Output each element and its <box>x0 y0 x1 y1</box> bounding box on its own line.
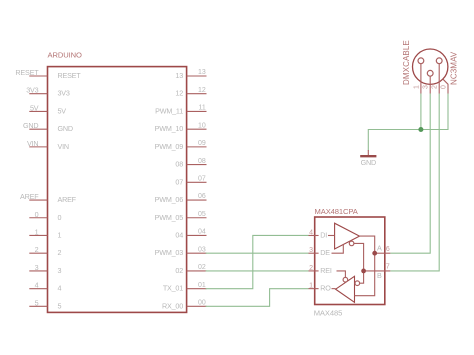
svg-text:PWM_05: PWM_05 <box>155 213 184 222</box>
svg-text:3: 3 <box>423 85 430 89</box>
svg-text:3: 3 <box>35 263 39 272</box>
svg-text:0: 0 <box>58 213 62 222</box>
svg-text:A: A <box>377 243 382 252</box>
svg-text:RESET: RESET <box>58 71 82 80</box>
svg-text:NC3MAV: NC3MAV <box>450 51 459 85</box>
svg-text:02: 02 <box>175 266 183 275</box>
svg-text:PWM_11: PWM_11 <box>155 106 183 115</box>
svg-text:GND: GND <box>23 121 38 130</box>
svg-text:12: 12 <box>198 87 206 94</box>
svg-text:4: 4 <box>35 281 39 290</box>
svg-text:GND: GND <box>58 124 73 133</box>
svg-text:DE: DE <box>320 248 330 257</box>
svg-text:AREF: AREF <box>58 195 77 204</box>
svg-text:07: 07 <box>175 177 183 186</box>
svg-text:05: 05 <box>198 211 206 218</box>
svg-text:07: 07 <box>198 176 206 183</box>
svg-text:5: 5 <box>58 301 62 310</box>
svg-text:1: 1 <box>58 230 62 239</box>
svg-text:08: 08 <box>175 160 183 169</box>
svg-text:3: 3 <box>309 247 313 254</box>
svg-text:13: 13 <box>175 71 183 80</box>
svg-text:11: 11 <box>199 105 206 112</box>
svg-text:03: 03 <box>198 246 206 253</box>
svg-text:10: 10 <box>198 122 206 129</box>
svg-text:PWM_03: PWM_03 <box>155 248 184 257</box>
svg-text:RESET: RESET <box>15 68 39 77</box>
svg-text:4: 4 <box>309 229 313 236</box>
svg-text:13: 13 <box>198 69 206 76</box>
svg-text:1: 1 <box>309 283 313 290</box>
svg-text:MAX485: MAX485 <box>314 309 343 318</box>
svg-text:0: 0 <box>440 85 447 89</box>
svg-text:7: 7 <box>386 264 390 271</box>
svg-text:0: 0 <box>35 210 39 219</box>
svg-text:3V3: 3V3 <box>26 86 38 95</box>
svg-text:06: 06 <box>198 193 206 200</box>
svg-text:MAX481CPA: MAX481CPA <box>315 207 359 216</box>
svg-text:04: 04 <box>175 230 183 239</box>
svg-text:PWM_10: PWM_10 <box>155 124 184 133</box>
svg-text:00: 00 <box>198 300 206 307</box>
svg-text:B: B <box>377 271 382 280</box>
svg-text:DMXCABLE: DMXCABLE <box>402 40 411 85</box>
svg-text:RX_00: RX_00 <box>162 301 183 310</box>
svg-text:VIN: VIN <box>58 142 69 151</box>
svg-text:01: 01 <box>198 282 206 289</box>
svg-text:2: 2 <box>58 248 62 257</box>
svg-text:3: 3 <box>58 266 62 275</box>
svg-text:4: 4 <box>58 284 62 293</box>
svg-text:08: 08 <box>198 158 206 165</box>
svg-text:VIN: VIN <box>27 139 38 148</box>
svg-text:REI: REI <box>320 266 332 275</box>
svg-text:1: 1 <box>35 227 39 236</box>
svg-text:GND: GND <box>361 158 376 167</box>
svg-text:2: 2 <box>432 85 439 89</box>
svg-text:2: 2 <box>35 245 39 254</box>
svg-text:04: 04 <box>198 229 206 236</box>
svg-text:12: 12 <box>175 89 183 98</box>
svg-text:RO: RO <box>320 284 331 293</box>
svg-text:02: 02 <box>198 264 206 271</box>
svg-text:1: 1 <box>413 85 420 89</box>
svg-text:TX_01: TX_01 <box>163 284 183 293</box>
svg-text:5: 5 <box>35 298 39 307</box>
svg-text:PWM_09: PWM_09 <box>155 142 184 151</box>
svg-text:PWM_06: PWM_06 <box>155 195 184 204</box>
svg-text:AREF: AREF <box>20 192 39 201</box>
svg-text:09: 09 <box>198 140 206 147</box>
svg-text:3V3: 3V3 <box>58 89 70 98</box>
svg-text:5V: 5V <box>58 106 67 115</box>
svg-text:6: 6 <box>386 246 390 253</box>
svg-text:5V: 5V <box>30 103 39 112</box>
svg-text:DI: DI <box>320 230 327 239</box>
svg-text:2: 2 <box>309 265 313 272</box>
svg-text:ARDUINO: ARDUINO <box>48 51 83 60</box>
